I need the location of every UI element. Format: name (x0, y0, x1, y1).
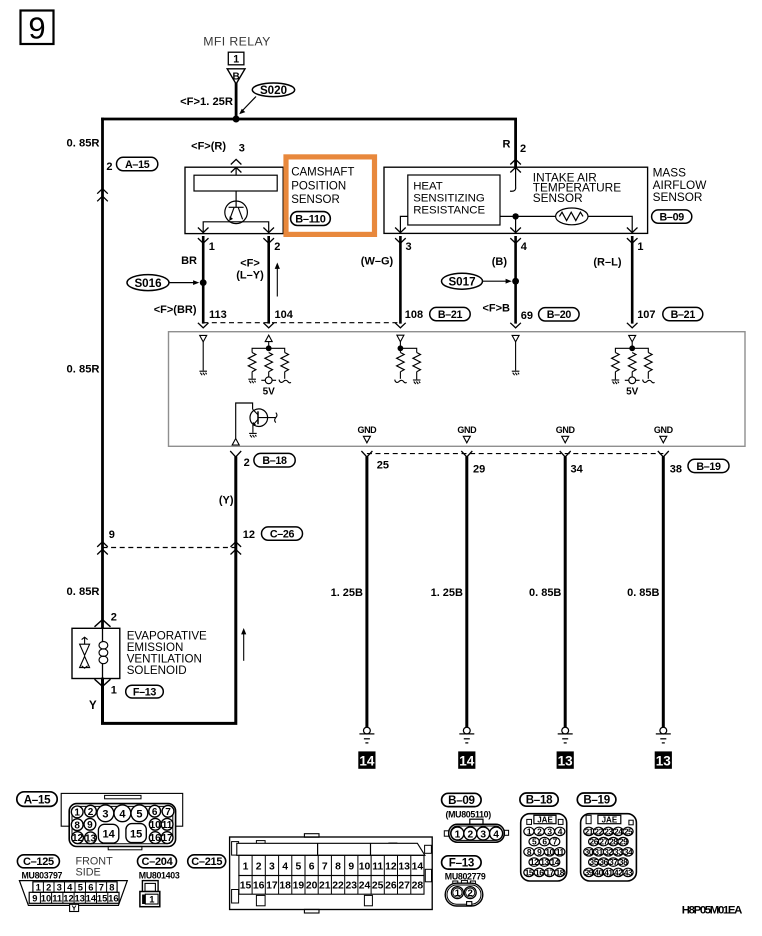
svg-text:28: 28 (412, 880, 424, 891)
ECU pin 107 input triangle (629, 335, 636, 342)
connector B-19 pins (584, 826, 633, 877)
connector B-09 tag bottom (442, 793, 482, 807)
svg-text:14: 14 (459, 754, 475, 769)
svg-text:6: 6 (88, 882, 93, 893)
svg-text:19: 19 (293, 880, 305, 891)
solenoid name label (127, 629, 207, 677)
connector A-15 housing (61, 793, 183, 849)
svg-text:2: 2 (256, 861, 262, 872)
wire: pin2 stub with curl (510, 167, 516, 191)
wire: pin 104 resistor bus (252, 348, 285, 352)
svg-text:SENSOR: SENSOR (653, 190, 703, 204)
svg-text:B–18: B–18 (526, 794, 553, 807)
svg-text:18: 18 (279, 880, 291, 891)
svg-text:10: 10 (150, 820, 162, 831)
camshaft sensor name label (291, 167, 354, 206)
mass airflow sensor label (653, 166, 708, 204)
svg-text:12: 12 (243, 529, 255, 541)
svg-text:C–204: C–204 (142, 856, 174, 868)
5V supply symbol pin 107 (625, 377, 640, 384)
resistor R8 to internal circuit (645, 353, 653, 372)
ground inside ECU at pin 69 (512, 371, 520, 375)
resistor R6 to ground (612, 353, 620, 372)
hall element arrow tip (229, 216, 233, 221)
junction node on thermistor bus (512, 213, 518, 219)
hook under R3 (279, 380, 291, 383)
svg-text:113: 113 (209, 309, 227, 321)
svg-text:15: 15 (525, 867, 534, 877)
svg-text:18: 18 (556, 867, 565, 877)
svg-text:B–21: B–21 (671, 309, 696, 321)
connector C-204 body (140, 881, 160, 907)
connector B-18 pins (524, 826, 565, 877)
current arrow beside wire 104 (275, 263, 280, 297)
svg-text:1: 1 (455, 888, 461, 899)
terminal chevron ECU pin 113 (198, 323, 209, 328)
svg-text:29: 29 (619, 837, 628, 847)
svg-text:21: 21 (585, 826, 594, 836)
ECU pin 108 input triangle (397, 335, 404, 342)
svg-text:2: 2 (520, 143, 526, 155)
svg-text:15: 15 (240, 880, 252, 891)
terminal chevron ECU pin 29 (461, 451, 472, 457)
ground inside ECU at pin 113 (199, 371, 207, 375)
svg-text:B–110: B–110 (295, 214, 325, 226)
svg-text:32: 32 (604, 847, 613, 857)
connector C-215 housing (230, 834, 433, 913)
svg-text:11: 11 (162, 820, 173, 831)
svg-text:22: 22 (332, 880, 344, 891)
junction node on BR wire (200, 279, 207, 286)
wire and ground under R1 (251, 372, 253, 379)
svg-text:<F>1. 25R: <F>1. 25R (180, 96, 233, 108)
junction node pin 104 network (266, 345, 272, 351)
pin 2 connector A-15 tag (106, 157, 157, 173)
connector B-18 tag bottom (520, 793, 558, 807)
wire: MFI relay drop to rail (235, 83, 238, 119)
svg-text:13: 13 (398, 861, 410, 872)
wire: thermistor bus (400, 216, 632, 233)
hook under R4 (395, 380, 407, 383)
svg-text:7: 7 (99, 882, 104, 893)
dashed harness line C-26 (103, 547, 236, 549)
svg-text:S016: S016 (134, 277, 162, 290)
pin 69 label and tag B-20 (521, 308, 579, 323)
svg-text:2: 2 (467, 829, 473, 840)
svg-text:3: 3 (57, 882, 62, 893)
svg-text:7: 7 (322, 861, 328, 872)
body ground symbol 14 first (358, 727, 375, 769)
svg-text:SENSOR: SENSOR (291, 194, 340, 206)
terminal chevron ECU pin 38 (658, 451, 669, 457)
svg-text:29: 29 (473, 464, 485, 476)
driver transistor Q1 (236, 403, 277, 438)
svg-text:3: 3 (102, 808, 108, 820)
terminal chevron ECU pin 69 (510, 323, 521, 328)
svg-text:14: 14 (551, 857, 560, 867)
connector C-215 group dividers (317, 843, 319, 855)
svg-text:15: 15 (97, 892, 107, 903)
crossing chevrons on left wire at C-26 line (97, 542, 108, 547)
svg-text:9: 9 (348, 861, 354, 872)
terminal chevron ECU pin 104 (263, 323, 274, 328)
svg-text:2: 2 (46, 882, 51, 893)
wire: ground wire pin 29 (465, 457, 468, 728)
connector tag F-13 inline (126, 685, 164, 698)
svg-text:13: 13 (85, 833, 97, 844)
body ground symbol 13 fourth (655, 727, 672, 769)
svg-text:20: 20 (306, 880, 318, 891)
svg-text:21: 21 (319, 880, 331, 891)
body ground symbol 13 third (557, 727, 574, 769)
connector C-215 cells row 2 (239, 876, 424, 895)
terminal chevron ECU pin 25 (361, 451, 372, 457)
ECU pin 113 input triangle (200, 335, 207, 342)
svg-text:3: 3 (269, 861, 275, 872)
svg-text:9: 9 (32, 892, 37, 903)
svg-text:12: 12 (63, 892, 73, 903)
intake air temperature sensor label (533, 171, 621, 205)
svg-text:25: 25 (624, 826, 633, 836)
svg-text:1: 1 (74, 808, 80, 819)
svg-text:9: 9 (87, 820, 93, 831)
svg-text:MFI RELAY: MFI RELAY (203, 35, 271, 49)
ECU pin 2 output triangle (232, 439, 239, 446)
svg-text:16: 16 (535, 867, 544, 877)
wire: left 0.85R vertical run (101, 118, 104, 629)
svg-text:2: 2 (274, 241, 280, 253)
svg-text:F–13: F–13 (449, 857, 475, 870)
heat sensitizing resistance label (413, 181, 485, 217)
svg-text:11: 11 (372, 861, 383, 872)
camshaft sensor hall element circle (225, 201, 248, 224)
splice S017 (442, 273, 512, 289)
svg-text:5: 5 (296, 861, 302, 872)
connector tag B-09 inline (652, 210, 692, 224)
intake air thermistor symbol (556, 208, 588, 225)
svg-text:S020: S020 (260, 84, 287, 97)
wire: pin4 to ECU pin 69 (514, 236, 517, 324)
svg-text:<F>B: <F>B (482, 303, 510, 315)
5V supply symbol pin 104 (261, 377, 276, 384)
svg-text:39: 39 (585, 867, 594, 877)
svg-text:23: 23 (346, 880, 358, 891)
terminal chevron below ECU pin 2 (230, 451, 241, 457)
terminal chevron solenoid pin 2 (95, 620, 111, 627)
svg-text:BR: BR (181, 255, 197, 267)
svg-text:Y: Y (72, 903, 77, 912)
terminal chevrons at mass airflow pin 2 (510, 159, 521, 164)
svg-text:34: 34 (624, 847, 633, 857)
wire: pin 4 drop (515, 216, 517, 233)
svg-text:40: 40 (594, 867, 603, 877)
svg-text:C–125: C–125 (23, 856, 54, 868)
svg-text:4: 4 (493, 829, 499, 840)
svg-text:4: 4 (67, 882, 73, 893)
svg-text:SENSITIZING: SENSITIZING (413, 193, 485, 205)
connector F-13 tag bottom (442, 856, 482, 870)
svg-text:GND: GND (556, 425, 576, 435)
svg-text:1: 1 (111, 684, 117, 696)
svg-text:108: 108 (405, 309, 423, 321)
connector F-13 body (445, 880, 483, 906)
svg-text:(W–G): (W–G) (361, 255, 394, 267)
svg-text:13: 13 (540, 857, 549, 867)
heat sensitizing resistance box (408, 175, 500, 225)
svg-text:11: 11 (556, 847, 565, 857)
resistor R2 to 5V (265, 353, 273, 372)
svg-text:41: 41 (604, 867, 613, 877)
svg-text:107: 107 (637, 309, 655, 321)
svg-text:B: B (232, 72, 239, 83)
svg-text:14: 14 (359, 754, 375, 769)
wire: pin 108 resistor bus (400, 348, 416, 352)
wire: pin 104 node stub (268, 342, 270, 349)
ECU pin 69 input triangle (512, 335, 519, 342)
connector A-15 small pins (71, 805, 174, 844)
connector B-19 tag bottom (577, 793, 616, 807)
svg-text:HEAT: HEAT (413, 181, 443, 193)
resistor R4 under pin 108 (399, 348, 401, 352)
svg-text:104: 104 (275, 309, 294, 321)
svg-text:38: 38 (670, 464, 682, 476)
svg-text:10: 10 (545, 847, 554, 857)
svg-text:8: 8 (109, 882, 114, 893)
svg-text:34: 34 (571, 464, 584, 476)
svg-text:26: 26 (385, 880, 397, 891)
svg-text:1: 1 (243, 861, 249, 872)
svg-text:17: 17 (266, 880, 278, 891)
svg-text:13: 13 (656, 754, 672, 769)
svg-text:5: 5 (136, 808, 142, 820)
crossing chevrons on left wire upper (97, 189, 108, 194)
resistor R5 to ground (413, 353, 421, 372)
camshaft position sensor box B-110 (185, 167, 283, 233)
svg-text:33: 33 (614, 847, 623, 857)
svg-text:8: 8 (335, 861, 341, 872)
svg-text:1: 1 (233, 53, 239, 65)
wire: pin1 to ECU pin 107 (631, 236, 634, 324)
svg-text:(Y): (Y) (219, 494, 234, 506)
ground under transistor (249, 433, 257, 437)
svg-text:22: 22 (594, 826, 603, 836)
svg-text:25: 25 (377, 460, 389, 472)
svg-text:0. 85R: 0. 85R (67, 364, 100, 376)
svg-text:2: 2 (88, 807, 94, 818)
svg-text:B–19: B–19 (696, 461, 721, 473)
svg-text:7: 7 (165, 807, 171, 818)
connector B-19 body (581, 814, 637, 881)
connector B-18 body (521, 814, 567, 881)
svg-text:GND: GND (654, 425, 674, 435)
svg-text:C–215: C–215 (191, 856, 222, 868)
svg-text:H8P05M01EA: H8P05M01EA (682, 904, 743, 916)
terminal chevron ECU pin 108 (395, 323, 406, 328)
wire: pin 69 to ground (515, 342, 517, 371)
terminal chevrons sensor pin 2 (263, 228, 274, 233)
page number box 9 (21, 11, 54, 46)
svg-text:3: 3 (239, 143, 245, 155)
svg-text:5: 5 (78, 882, 83, 893)
camshaft sensor element rectangle (194, 175, 277, 191)
terminal chevrons sensor pin 1 (198, 228, 209, 233)
connector B-09 body (444, 819, 508, 842)
svg-text:A–15: A–15 (24, 794, 51, 807)
svg-text:B–18: B–18 (262, 455, 287, 467)
MFI relay terminal box 1 (228, 52, 244, 65)
mass airflow sensor box B-09 (384, 167, 648, 233)
svg-text:10: 10 (359, 861, 371, 872)
svg-text:37: 37 (609, 857, 618, 867)
svg-text:25: 25 (372, 880, 384, 891)
svg-text:A–15: A–15 (125, 159, 150, 171)
svg-text:11: 11 (52, 892, 62, 903)
junction node S020 (233, 116, 240, 123)
wire: ground wire pin 34 (564, 457, 567, 728)
svg-text:16: 16 (253, 880, 265, 891)
wire: pin 107 resistor bus (615, 348, 648, 352)
resistor R3 to internal circuit (281, 353, 289, 372)
svg-text:0. 85R: 0. 85R (67, 138, 100, 150)
pin 107 label and tag B-21 (637, 307, 703, 321)
svg-text:JAE: JAE (537, 815, 553, 824)
svg-text:(L–Y): (L–Y) (236, 269, 264, 281)
svg-text:30: 30 (585, 847, 594, 857)
pin 12 label and tag C-26 (243, 527, 303, 541)
svg-text:1: 1 (209, 241, 215, 253)
svg-text:5V: 5V (263, 387, 276, 398)
svg-text:12: 12 (385, 861, 397, 872)
connector C-125 Y tab (70, 903, 79, 912)
svg-text:3: 3 (480, 829, 486, 840)
svg-text:27: 27 (398, 880, 410, 891)
connector C-125 cells row 1 (33, 882, 117, 893)
junction node pin 107 network (629, 345, 635, 351)
svg-text:B–09: B–09 (660, 212, 685, 224)
svg-text:15: 15 (130, 829, 142, 841)
terminal chevrons mass airflow pin 3 (395, 228, 406, 233)
svg-text:JAE: JAE (602, 815, 618, 824)
dashed harness line upper (203, 322, 400, 324)
wire: ground wire pin 25 (365, 457, 368, 728)
svg-text:Y: Y (89, 700, 97, 712)
terminal chevrons mass airflow pin 1 (627, 228, 638, 233)
connector F-13 pins 1-2 (451, 887, 476, 900)
svg-text:(B): (B) (492, 256, 508, 268)
svg-text:14: 14 (412, 861, 424, 872)
connector A-15 tag (17, 792, 57, 807)
connector A-15 pin 15 (126, 824, 146, 843)
svg-text:17: 17 (545, 867, 554, 877)
svg-text:0. 85R: 0. 85R (67, 586, 100, 598)
solenoid coil (99, 642, 108, 664)
svg-text:F–13: F–13 (133, 686, 157, 698)
svg-text:<F>: <F> (240, 257, 260, 269)
solenoid valve symbol (80, 637, 90, 668)
svg-text:9: 9 (28, 11, 45, 46)
pin 2 label and tag B-18 (244, 453, 296, 469)
svg-text:36: 36 (599, 857, 608, 867)
svg-text:42: 42 (614, 867, 623, 877)
wire: pin 108 node stub (399, 342, 401, 349)
wire: sensor pin1 to ECU pin 113 (202, 236, 205, 324)
svg-text:6: 6 (152, 807, 158, 818)
wire: pin 107 node stub (631, 342, 633, 348)
junction node on B wire (512, 278, 519, 285)
body ground symbol 14 second (458, 727, 475, 769)
svg-text:S017: S017 (448, 276, 475, 289)
svg-text:4: 4 (282, 861, 288, 872)
wire: ground wire pin 38 (662, 457, 665, 728)
wire: power rail and right drop to intake sensor (101, 119, 515, 167)
svg-text:9: 9 (109, 529, 115, 541)
resistor R1 pull-down (248, 353, 256, 372)
svg-text:SOLENOID: SOLENOID (127, 664, 187, 677)
svg-text:43: 43 (624, 867, 633, 877)
connector B-09 pins 1-4 (451, 827, 503, 840)
connector C-125 body (19, 881, 127, 906)
svg-text:0. 85B: 0. 85B (529, 587, 561, 599)
svg-text:4: 4 (119, 808, 126, 820)
svg-text:38: 38 (619, 857, 628, 867)
svg-text:1. 25B: 1. 25B (331, 587, 363, 599)
svg-text:R: R (503, 139, 511, 151)
svg-text:3: 3 (406, 241, 412, 253)
svg-text:B–09: B–09 (448, 794, 475, 807)
dashed harness line lower ECU (367, 453, 663, 455)
wire: sensor output bus (203, 222, 269, 234)
svg-text:16: 16 (108, 892, 118, 903)
svg-text:MU803797: MU803797 (22, 871, 63, 881)
svg-text:FRONT: FRONT (76, 855, 114, 867)
svg-text:B–21: B–21 (438, 309, 463, 321)
svg-text:13: 13 (558, 754, 574, 769)
svg-text:SIDE: SIDE (76, 867, 101, 879)
svg-text:5V: 5V (626, 387, 639, 398)
wire: pin 113 to ground (202, 342, 204, 371)
crossing chevrons on Y wire at C-26 line (231, 542, 242, 547)
connector C-204 tag (138, 855, 177, 868)
svg-text:28: 28 (609, 837, 618, 847)
connector C-215 cells row 1 (239, 855, 424, 875)
connector C-215 tag (188, 855, 226, 868)
wire: pin3 to ECU pin 108 (399, 236, 402, 324)
splice S016 (127, 275, 199, 291)
resistor R7 to 5V (628, 353, 636, 372)
hook under R8 (643, 380, 655, 383)
svg-text:MU801403: MU801403 (139, 871, 180, 881)
svg-text:14: 14 (86, 892, 97, 903)
svg-text:12: 12 (530, 857, 539, 867)
svg-text:2: 2 (468, 888, 473, 899)
svg-text:12: 12 (72, 833, 84, 844)
svg-text:<F>(BR): <F>(BR) (154, 304, 197, 316)
svg-text:1: 1 (36, 882, 41, 893)
svg-text:1: 1 (455, 829, 461, 840)
svg-text:GND: GND (457, 425, 477, 435)
svg-text:(MU805110): (MU805110) (446, 810, 492, 820)
svg-text:8: 8 (74, 820, 80, 831)
svg-text:<F>(R): <F>(R) (191, 141, 226, 153)
svg-text:10: 10 (41, 892, 51, 903)
fusible link triangle B (227, 69, 245, 84)
connector A-15 large pins 3 4 5 (97, 805, 148, 822)
svg-text:1. 25B: 1. 25B (431, 587, 463, 599)
svg-text:6: 6 (309, 861, 315, 872)
svg-text:26: 26 (590, 837, 599, 847)
svg-text:CAMSHAFT: CAMSHAFT (291, 167, 354, 179)
svg-text:2: 2 (111, 612, 117, 624)
